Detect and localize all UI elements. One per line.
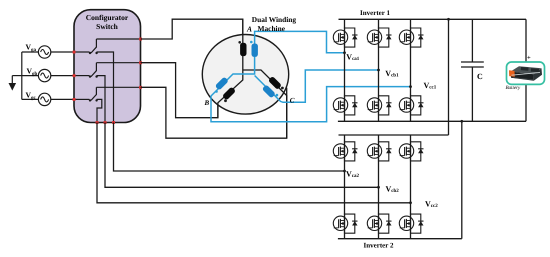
svg-text:C: C	[477, 72, 483, 81]
svg-text:Vcb2: Vcb2	[386, 184, 400, 193]
svg-text:Inverter 2: Inverter 2	[364, 242, 394, 250]
svg-text:Vca2: Vca2	[346, 169, 360, 178]
svg-text:Switch: Switch	[96, 22, 118, 31]
svg-text:C: C	[290, 97, 295, 105]
svg-text:Vcc1: Vcc1	[424, 81, 437, 90]
svg-text:B: B	[204, 99, 210, 107]
svg-text:+: +	[527, 54, 531, 61]
svg-text:Vcc2: Vcc2	[425, 200, 438, 209]
svg-text:A: A	[246, 24, 252, 33]
svg-text:Machine: Machine	[258, 24, 286, 33]
svg-text:Configurator: Configurator	[86, 13, 129, 22]
svg-text:Dual Winding: Dual Winding	[252, 15, 297, 24]
svg-text:Battery: Battery	[506, 85, 521, 91]
svg-text:Vca1: Vca1	[346, 53, 360, 62]
svg-text:Inverter 1: Inverter 1	[360, 9, 390, 17]
svg-text:Vcb1: Vcb1	[385, 69, 399, 78]
